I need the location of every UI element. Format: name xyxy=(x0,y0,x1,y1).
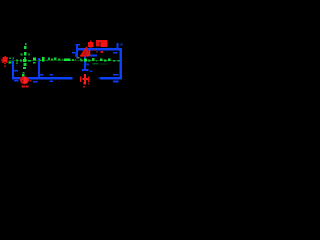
resistor R1 value text (red blobs top right) xyxy=(96,40,108,47)
junction dot on wire (red) xyxy=(30,80,32,81)
fuse F2 body edges xyxy=(113,74,118,82)
switch S1 contacts xyxy=(33,74,44,83)
pin dot (dim red) xyxy=(94,50,96,52)
current path dashed line (green, vertical branch at x24) xyxy=(20,43,30,76)
node X1 marker (red asterisk at left) xyxy=(1,56,8,67)
wire left side (battery branch) xyxy=(12,60,14,78)
capacitor C1 plate xyxy=(82,69,93,72)
battery B1 plates xyxy=(14,70,19,82)
wire right side (top-right corner down to bottom-right corner) xyxy=(119,48,122,80)
fuse F1 body edges xyxy=(49,74,52,82)
junction node B (green blob x34) xyxy=(33,57,36,63)
ammeter M1 (red symbol bottom middle) xyxy=(80,74,90,87)
wire top (blue net from T-junction to top-right corner) xyxy=(78,48,122,50)
junction node C (green blob x42) xyxy=(42,57,45,62)
wire branch at x84 (to capacitor plate) xyxy=(84,50,89,69)
wire stub mid (horizontal below top wire) xyxy=(86,54,97,56)
wire bottom left xyxy=(12,77,73,80)
junction node D (green blob at x84 crossing) xyxy=(84,58,87,61)
transistor Q1 name label (red blob) xyxy=(88,41,94,48)
lamp DS1 value label xyxy=(22,86,29,88)
lamp DS1 (red circle on bottom wire) xyxy=(20,76,29,84)
key switch S2 at top-right xyxy=(113,43,123,54)
wire bottom right xyxy=(98,77,122,80)
junction node A (green blob at dashed cross x24) xyxy=(23,59,26,62)
wire branch at x38 (switch branch) xyxy=(38,58,40,77)
pin marker (faint) xyxy=(76,57,79,59)
antenna T-stub U1 (blue T with cap and left arm) xyxy=(72,44,80,57)
resistor R1 pin dots below wire xyxy=(96,51,103,53)
transistor Q1 (red diagonal and bar on top wire) xyxy=(81,47,91,56)
current path dashed line (green, horizontal) xyxy=(9,57,120,64)
